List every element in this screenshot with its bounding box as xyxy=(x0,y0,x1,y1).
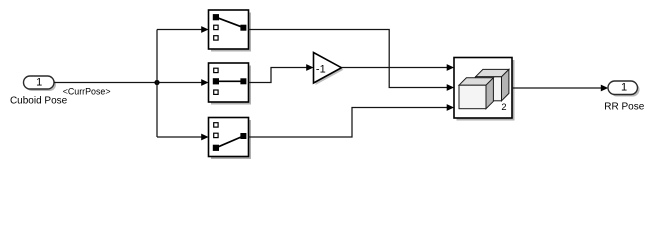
arrowhead into outport xyxy=(601,85,608,92)
arrowhead into middle selector xyxy=(201,79,208,86)
junction node xyxy=(154,80,159,85)
wire: gain to concat input 1 xyxy=(342,67,449,69)
svg-text:1: 1 xyxy=(621,81,627,93)
wire: middle selector to gain xyxy=(249,68,308,83)
wire: branch to top selector xyxy=(157,29,202,31)
arrowhead into gain xyxy=(306,64,313,71)
gain block -1 xyxy=(314,53,344,86)
wire: top selector to concat input 2 xyxy=(249,30,449,88)
wire: inport to middle selector xyxy=(54,82,202,84)
svg-text:2: 2 xyxy=(501,102,506,112)
concatenate block xyxy=(454,58,515,121)
selector block (middle) xyxy=(209,63,252,105)
arrowhead concat input 1 xyxy=(447,64,454,71)
arrowhead into top selector xyxy=(201,26,208,33)
wire: concat to outport xyxy=(512,87,602,89)
outport 1 (RR Pose) xyxy=(608,81,640,97)
back cuboid xyxy=(476,69,509,76)
front cuboid xyxy=(459,78,493,85)
arrowhead concat input 3 xyxy=(447,104,454,111)
arrowhead into bottom selector xyxy=(201,134,208,141)
selector block (bottom) xyxy=(209,118,252,160)
svg-text:Cuboid Pose: Cuboid Pose xyxy=(10,95,68,106)
arrowhead concat input 2 xyxy=(447,84,454,91)
selector block (top) xyxy=(209,10,252,52)
inport 1 (Cuboid Pose) xyxy=(24,76,57,91)
wire: branch to bottom selector xyxy=(157,136,202,138)
svg-text:RR Pose: RR Pose xyxy=(604,102,644,113)
svg-text:1: 1 xyxy=(36,76,42,88)
wire: vertical branch xyxy=(156,30,158,138)
wire: bottom selector to concat input 3 xyxy=(249,108,449,138)
svg-text:<CurrPose>: <CurrPose> xyxy=(63,86,111,96)
svg-text:-1: -1 xyxy=(316,63,326,75)
